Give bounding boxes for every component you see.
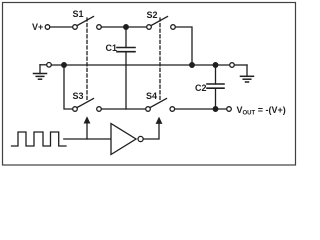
node junction C1 top — [124, 25, 129, 30]
ground right — [234, 65, 253, 82]
wire S2 right to mid rail — [175, 27, 192, 65]
wire clock to inverter — [64, 138, 111, 140]
ground left — [34, 65, 47, 79]
svg-text:S1: S1 — [73, 9, 84, 19]
node ground terminal circle — [47, 63, 52, 68]
node junction C2 top — [213, 63, 218, 68]
border frame (decorative) — [3, 3, 296, 166]
svg-text:S3: S3 — [73, 91, 84, 101]
op-amp U1 inverter — [111, 124, 143, 155]
wire S4 to output — [175, 108, 227, 110]
wire mid rail — [51, 64, 229, 66]
svg-text:S2: S2 — [147, 10, 158, 20]
switch S3 — [73, 99, 102, 112]
capacitor C1 — [117, 29, 135, 109]
svg-text:S4: S4 — [146, 91, 157, 101]
switch S1 — [73, 17, 102, 30]
clock square wave — [12, 132, 67, 146]
node VOUT terminal — [227, 107, 232, 112]
wire control line S1/S3 (dashed) — [86, 18, 88, 100]
arrowhead to S4 control — [156, 117, 163, 124]
wire clock arrow to S3 control — [86, 123, 88, 139]
wire junction down to S3 — [64, 67, 73, 109]
wire control line S2/S4 (dashed) — [159, 18, 161, 100]
wire V+ to S1 — [50, 26, 73, 28]
svg-text:V+: V+ — [32, 22, 43, 32]
node junction C2 bottom — [213, 107, 218, 112]
node V+ terminal — [45, 25, 50, 30]
node junction left rail — [62, 63, 67, 68]
node rail ground terminal right — [230, 63, 235, 68]
wire inverter output to S4 control — [143, 123, 159, 139]
wire S3 to S4 — [101, 108, 145, 110]
svg-text:C1: C1 — [106, 43, 118, 53]
svg-text:C2: C2 — [195, 83, 207, 93]
wire S1 to S2 — [101, 26, 146, 28]
switch S2 — [147, 17, 176, 30]
arrowhead to S3 control — [84, 116, 91, 123]
capacitor C2 — [207, 67, 224, 109]
node junction S2/rail — [190, 63, 195, 68]
switch S4 — [146, 99, 175, 112]
